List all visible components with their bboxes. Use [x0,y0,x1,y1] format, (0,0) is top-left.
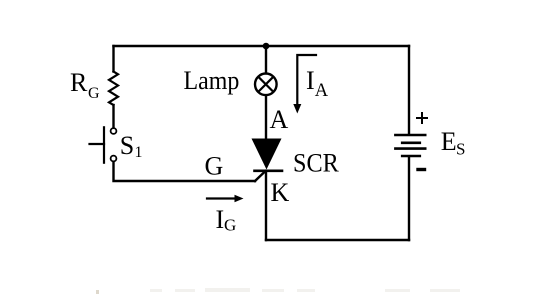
svg-text:I: I [306,66,315,95]
svg-text:S: S [120,131,134,160]
svg-text:Lamp: Lamp [184,66,240,95]
svg-text:SCR: SCR [293,149,339,178]
svg-text:I: I [216,205,225,234]
svg-text:G: G [224,215,236,234]
svg-text:R: R [70,68,88,97]
svg-text:G: G [205,152,224,181]
svg-text:1: 1 [135,144,143,161]
svg-text:E: E [441,127,457,156]
svg-text:G: G [88,85,100,102]
svg-text:K: K [271,178,290,207]
svg-text:A: A [315,81,329,101]
svg-text:A: A [270,105,289,134]
svg-text:S: S [456,139,465,158]
